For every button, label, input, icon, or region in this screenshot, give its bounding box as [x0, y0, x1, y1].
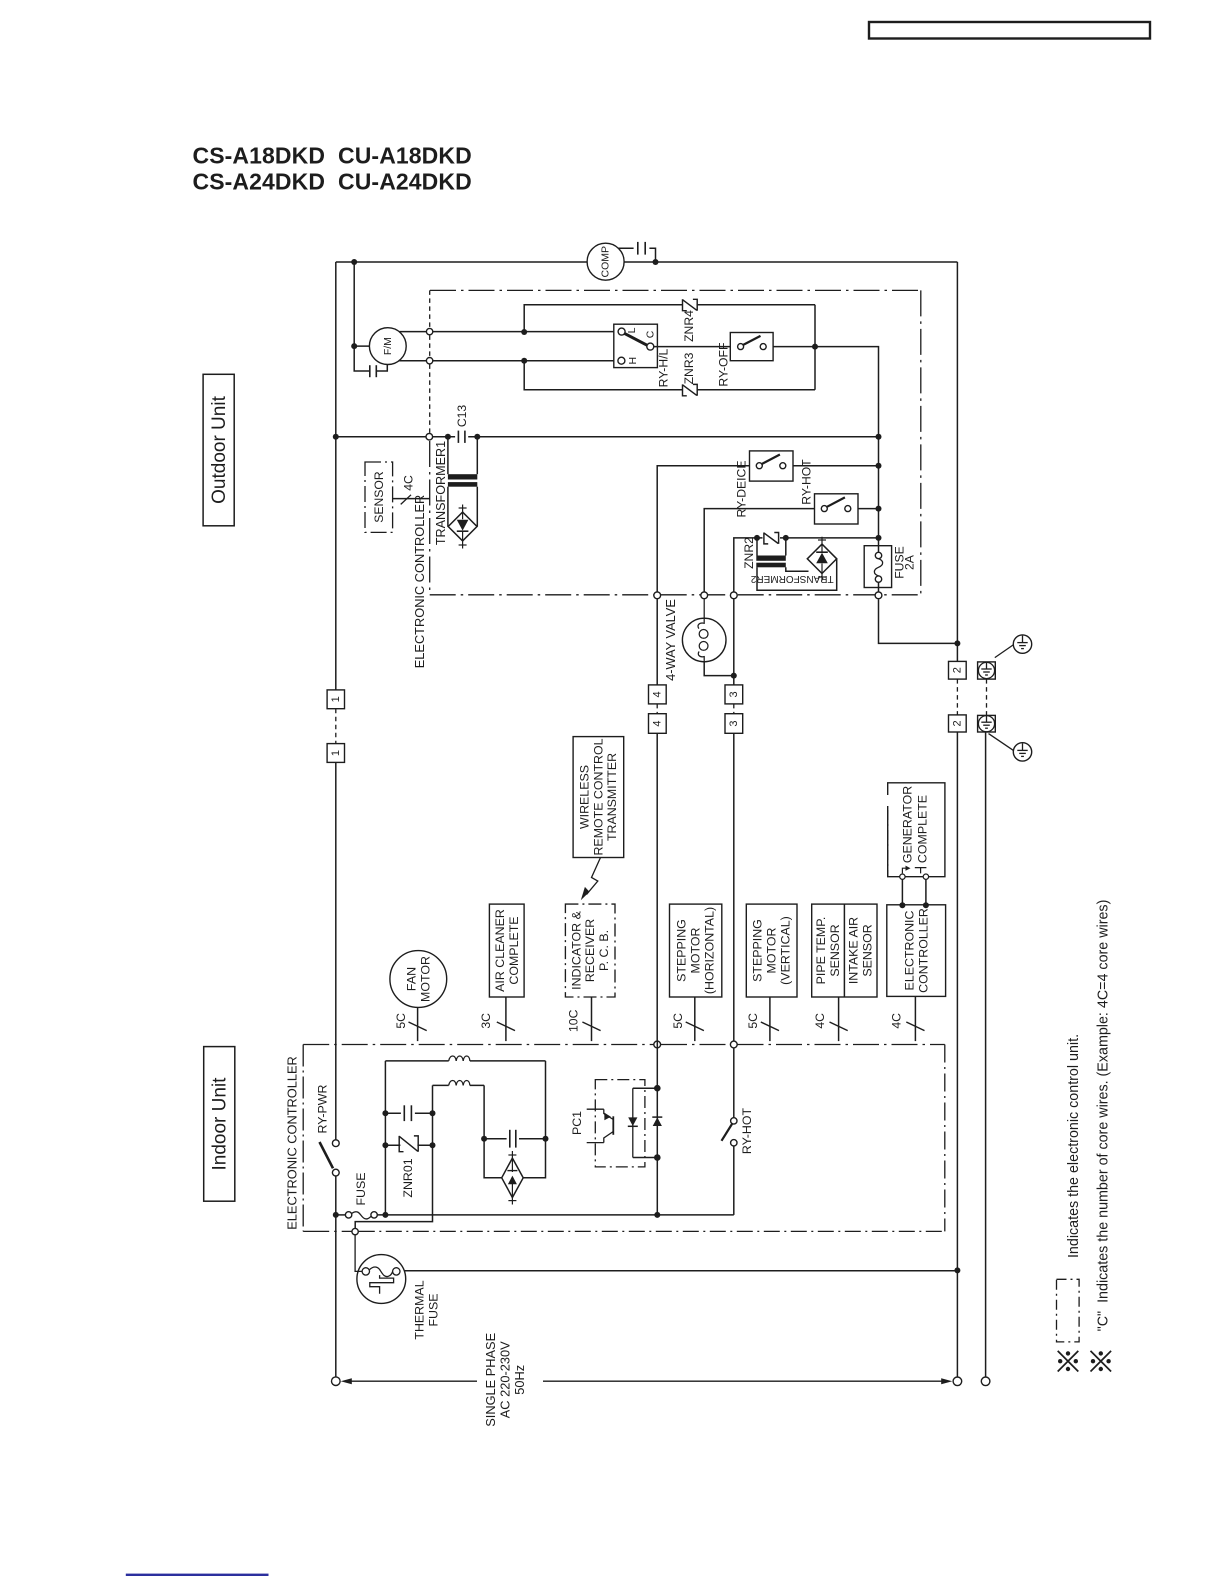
- wire sensor 4C cable: [393, 498, 430, 500]
- Outdoor Unit label box: [203, 374, 234, 526]
- wire left border to RY-PWR: [335, 762, 337, 1139]
- wire inter-unit cable 1: [335, 709, 337, 744]
- svg-text:ELECTRONIC CONTROLLER: ELECTRONIC CONTROLLER: [412, 495, 427, 669]
- pipe temp / intake air sensor box: [812, 904, 877, 997]
- svg-text:TRANSMITTER: TRANSMITTER: [605, 753, 619, 841]
- node junction right border at fuse feed: [954, 640, 960, 646]
- svg-text:CS-A18DKD CU-A18DKD: CS-A18DKD CU-A18DKD: [193, 143, 472, 169]
- relay RY-DEICE box: [750, 451, 794, 481]
- indicator receiver pcb box: [565, 904, 615, 997]
- stepping motor vertical box: [746, 904, 797, 997]
- earth terminal square outdoor: [978, 662, 996, 679]
- relay RY-H/L contacts: [618, 328, 625, 335]
- motor COMP compressor: [587, 243, 624, 280]
- svg-text:RY-OFF: RY-OFF: [717, 343, 731, 387]
- wire left border main line upper: [335, 262, 337, 690]
- wire thermal fuse to right border: [404, 1270, 957, 1272]
- svg-text:SINGLE PHASE: SINGLE PHASE: [483, 1333, 498, 1427]
- svg-text:INDICATOR &: INDICATOR &: [569, 910, 583, 989]
- svg-text:SENSOR: SENSOR: [372, 471, 386, 523]
- wire connector to RY-H/L: [433, 331, 614, 333]
- svg-text:CS-A24DKD CU-A24DKD: CS-A24DKD CU-A24DKD: [193, 169, 472, 195]
- wire left border lower: [335, 1176, 337, 1377]
- svg-text:5C: 5C: [746, 1013, 760, 1029]
- node junction top rail after comp capacitor: [653, 259, 659, 265]
- svg-text:Outdoor Unit: Outdoor Unit: [209, 395, 230, 503]
- varistor ZNR01: [385, 1144, 432, 1146]
- svg-text:P. C. B.: P. C. B.: [597, 930, 611, 971]
- wire controller 4C lead: [914, 996, 916, 1041]
- svg-text:STEPPING: STEPPING: [751, 919, 765, 982]
- generator complete box: [888, 783, 945, 877]
- wire F/M branch: [354, 262, 369, 346]
- wire top rail L-N: [336, 261, 587, 263]
- node junction top rail to F/M branch: [351, 259, 357, 265]
- node junction transformer primary right: [474, 434, 480, 440]
- legend reference mark 2: [1091, 1351, 1112, 1372]
- svg-text:FUSE: FUSE: [426, 1293, 440, 1326]
- fuse FUSE 2A box: [864, 546, 891, 588]
- svg-text:FAN: FAN: [405, 967, 419, 991]
- node connector terminal3 wire at boundary: [730, 1041, 737, 1048]
- earth terminal square indoor: [978, 715, 996, 732]
- svg-text:ELECTRONIC: ELECTRONIC: [902, 911, 916, 991]
- svg-text:10C: 10C: [567, 1009, 581, 1032]
- pc1 led: [632, 1088, 634, 1157]
- capacitor fan run: [354, 346, 387, 371]
- wire RY-OFF to return: [773, 346, 815, 348]
- node connector hot: [701, 592, 708, 599]
- svg-text:ZNR2: ZNR2: [742, 537, 756, 569]
- svg-text:GENERATOR: GENERATOR: [900, 786, 914, 863]
- varistor ZNR4: [683, 299, 687, 310]
- svg-text:INTAKE AIR: INTAKE AIR: [847, 917, 861, 984]
- capacitor filter X2: [484, 1138, 545, 1140]
- svg-text:MOTOR: MOTOR: [418, 956, 432, 1002]
- svg-text:PC1: PC1: [570, 1111, 584, 1135]
- node earth terminal bottom: [981, 1377, 990, 1386]
- node junction left border at x-former rail: [333, 434, 339, 440]
- wire earth cable: [986, 679, 988, 715]
- Indoor Unit label box: [204, 1047, 235, 1202]
- svg-text:WIRELESS: WIRELESS: [578, 765, 592, 829]
- svg-text:4C: 4C: [890, 1013, 904, 1029]
- svg-text:ZNR3: ZNR3: [682, 352, 696, 384]
- wire terminal 3 vertical: [733, 599, 735, 685]
- wire ZNR3 branch: [524, 361, 815, 390]
- varistor ZNR2: [764, 533, 768, 544]
- svg-text:RY-HOT: RY-HOT: [800, 459, 814, 505]
- inductor choke upper: [385, 1060, 545, 1062]
- wire terminal3 to indoor RY-HOT: [733, 733, 735, 1041]
- terminal 3 outdoor: [725, 685, 743, 704]
- svg-text:TRANSFORMER2: TRANSFORMER2: [750, 573, 833, 584]
- svg-text:C: C: [645, 330, 657, 338]
- wire boundary to thermal fuse: [355, 1235, 362, 1272]
- svg-text:THERMAL: THERMAL: [412, 1280, 426, 1339]
- svg-text:SENSOR: SENSOR: [828, 924, 842, 976]
- optocoupler PC1 box: [595, 1080, 645, 1167]
- wire terminal 4 vertical: [656, 599, 658, 685]
- wire valve to terminal 3: [704, 662, 734, 676]
- svg-text:5C: 5C: [394, 1013, 408, 1029]
- capacitor C13: [457, 431, 459, 443]
- terminal 1 outdoor: [327, 690, 344, 709]
- svg-text:4: 4: [651, 691, 663, 697]
- svg-text:4C: 4C: [813, 1013, 827, 1029]
- relay RY-OFF box: [730, 333, 773, 361]
- svg-text:F/M: F/M: [382, 337, 394, 355]
- varistor ZNR3: [683, 384, 687, 395]
- motor F/M outdoor fan: [369, 328, 406, 365]
- svg-text:ZNR01: ZNR01: [401, 1158, 415, 1197]
- wire F/M leads to connector: [399, 331, 426, 333]
- wire filter left leg: [384, 1061, 386, 1215]
- wire pipe sensor 4C lead: [838, 997, 840, 1041]
- wire earth line down: [985, 732, 987, 1377]
- terminal 4 outdoor: [649, 685, 667, 704]
- svg-text:3: 3: [728, 691, 740, 697]
- svg-text:AC 220-230V: AC 220-230V: [497, 1341, 512, 1418]
- thermal fuse: [357, 1255, 406, 1304]
- diode main line: [656, 1041, 658, 1215]
- svg-text:2: 2: [951, 720, 963, 726]
- svg-text:(HORIZONTAL): (HORIZONTAL): [703, 907, 717, 994]
- wire ZNR return vertical: [814, 305, 816, 390]
- svg-text:FUSE: FUSE: [354, 1172, 368, 1205]
- wire fan 5C lead: [417, 1007, 419, 1041]
- relay RY-H/L box: [614, 324, 658, 367]
- svg-text:1: 1: [330, 750, 342, 756]
- generator brush symbol: [902, 868, 906, 873]
- solenoid 4-way valve coil: [682, 618, 726, 662]
- rectifier bridge outdoor: [448, 512, 477, 541]
- wireless remote control transmitter box: [573, 737, 624, 858]
- relay RY-HOT outdoor box: [815, 494, 859, 524]
- supply span arrow: [341, 1378, 352, 1384]
- node generator terminals: [900, 874, 905, 879]
- svg-text:4C: 4C: [402, 475, 416, 491]
- svg-text:5C: 5C: [671, 1013, 685, 1029]
- rectifier bridge transformer2: [807, 544, 836, 573]
- wire inter-unit cable 2: [956, 679, 958, 715]
- outdoor electronic controller dash-dot boundary: [430, 289, 921, 291]
- svg-text:H: H: [627, 357, 639, 365]
- wire ZNR2 rail: [734, 538, 879, 592]
- terminal 1 indoor: [327, 744, 344, 763]
- wire transformer rail: [336, 436, 879, 438]
- svg-text:"C" Indicates the number of c: "C" Indicates the number of core wires. …: [1096, 900, 1112, 1332]
- terminal 2 outdoor: [949, 661, 967, 679]
- svg-text:REMOTE CONTROL: REMOTE CONTROL: [591, 738, 605, 855]
- sensor box: [365, 462, 393, 532]
- arrow wireless to receiver: [587, 858, 601, 895]
- svg-text:AIR CLEANER: AIR CLEANER: [493, 909, 507, 992]
- wire right border lower: [956, 732, 958, 1377]
- svg-text:ELECTRONIC CONTROLLER: ELECTRONIC CONTROLLER: [285, 1056, 300, 1230]
- top-right blank label box: [869, 22, 1150, 39]
- wire RY-DEICE: [657, 466, 878, 592]
- terminal 2 indoor: [949, 715, 967, 732]
- svg-text:3C: 3C: [479, 1013, 493, 1029]
- terminal 4 indoor: [649, 714, 667, 734]
- svg-text:RY-HOT: RY-HOT: [740, 1108, 754, 1155]
- wire fuse output rail: [377, 1214, 734, 1216]
- wire RY-H/L C to RY-OFF: [654, 346, 731, 348]
- wire stepping-v 5C lead: [769, 997, 771, 1041]
- svg-text:2: 2: [951, 667, 963, 673]
- wire pc1 to main: [633, 1087, 658, 1089]
- node connector terminal4 wire at boundary: [654, 1041, 661, 1048]
- wire filter right leg: [355, 1085, 432, 1228]
- svg-text:4: 4: [651, 720, 663, 726]
- wire bridge feed left: [484, 1085, 502, 1177]
- wire RY-HOT outdoor: [704, 509, 878, 592]
- node connector power to controller: [426, 433, 433, 440]
- relay RY-PWR switch: [332, 1140, 339, 1147]
- svg-text:RY-H/L: RY-H/L: [656, 348, 670, 387]
- node junction transformer primary left: [445, 434, 451, 440]
- earth symbol indoor: [1013, 743, 1031, 761]
- svg-text:3: 3: [728, 720, 740, 726]
- svg-text:PIPE TEMP.: PIPE TEMP.: [814, 917, 828, 985]
- svg-text:ZNR4: ZNR4: [682, 310, 696, 342]
- node supply terminal left: [332, 1377, 341, 1386]
- svg-text:2A: 2A: [903, 554, 917, 570]
- bottom-left blue rule: [126, 1574, 269, 1576]
- motor indoor fan: [390, 951, 447, 1008]
- svg-text:STEPPING: STEPPING: [675, 919, 689, 982]
- node connector thermal fuse feed: [352, 1228, 358, 1234]
- svg-text:CONTROLLER: CONTROLLER: [916, 908, 930, 993]
- capacitor filter X1: [385, 1112, 432, 1114]
- legend reference mark 1: [1058, 1351, 1079, 1372]
- wire bridge feed right: [524, 1061, 546, 1178]
- svg-text:TRANSFORMER1: TRANSFORMER1: [434, 441, 448, 545]
- inductor choke lower: [433, 1084, 485, 1086]
- svg-text:RECEIVER: RECEIVER: [583, 919, 597, 982]
- wire terminal4 to indoor controller: [656, 733, 658, 1041]
- wire stepping-h 5C lead: [694, 997, 696, 1041]
- node connector fuse out: [875, 592, 882, 599]
- svg-text:4-WAY VALVE: 4-WAY VALVE: [663, 599, 678, 681]
- svg-text:L: L: [626, 327, 638, 333]
- rectifier bridge indoor: [502, 1158, 524, 1197]
- generator T symbol: [915, 868, 927, 874]
- relay RY-HOT indoor: [733, 1048, 735, 1118]
- svg-text:MOTOR: MOTOR: [765, 928, 779, 974]
- wire ZNR4 branch: [524, 305, 815, 332]
- svg-text:Indicates the electronic contr: Indicates the electronic control unit.: [1066, 1034, 1082, 1258]
- svg-text:SENSOR: SENSOR: [861, 924, 875, 976]
- indoor electronic controller dash-dot boundary: [303, 1044, 653, 1046]
- svg-text:Indoor Unit: Indoor Unit: [210, 1077, 231, 1171]
- svg-text:COMP: COMP: [600, 246, 612, 278]
- svg-text:1: 1: [330, 696, 342, 702]
- node connector deice: [654, 592, 661, 599]
- wire indicator 10C lead: [591, 997, 593, 1041]
- fuse indoor: [336, 1214, 346, 1216]
- node supply terminal right: [953, 1377, 962, 1386]
- relay RY-OFF contacts: [738, 344, 744, 350]
- pc1 transistor: [587, 1109, 604, 1142]
- stepping motor horizontal box: [670, 904, 722, 997]
- node connector F/M high: [426, 328, 432, 334]
- node connector znr2: [730, 592, 737, 599]
- svg-text:COMPLETE: COMPLETE: [916, 795, 930, 863]
- wire air cleaner 3C lead: [505, 997, 507, 1041]
- wire relay collector vertical: [815, 347, 957, 644]
- svg-text:(VERTICAL): (VERTICAL): [779, 916, 793, 985]
- node connector F/M low: [426, 358, 432, 364]
- svg-text:C13: C13: [455, 405, 469, 428]
- svg-text:RY-PWR: RY-PWR: [316, 1085, 330, 1134]
- earth symbol outdoor: [1013, 635, 1031, 653]
- node junction right border at thermal fuse wire: [954, 1267, 960, 1273]
- svg-text:COMPLETE: COMPLETE: [507, 916, 521, 984]
- legend dash-dot box sample: [1057, 1279, 1080, 1342]
- transformer TRANSFORMER1: [447, 437, 449, 475]
- air cleaner complete box: [489, 904, 524, 997]
- svg-text:50Hz: 50Hz: [512, 1365, 527, 1395]
- svg-text:MOTOR: MOTOR: [689, 928, 703, 974]
- capacitor comp run: [618, 248, 655, 262]
- electronic controller indoor box: [887, 905, 946, 997]
- wire generator to controller: [901, 879, 903, 904]
- terminal 3 indoor: [725, 714, 743, 734]
- wire right border upper: [956, 262, 958, 661]
- transformer TRANSFORMER2: [756, 538, 758, 556]
